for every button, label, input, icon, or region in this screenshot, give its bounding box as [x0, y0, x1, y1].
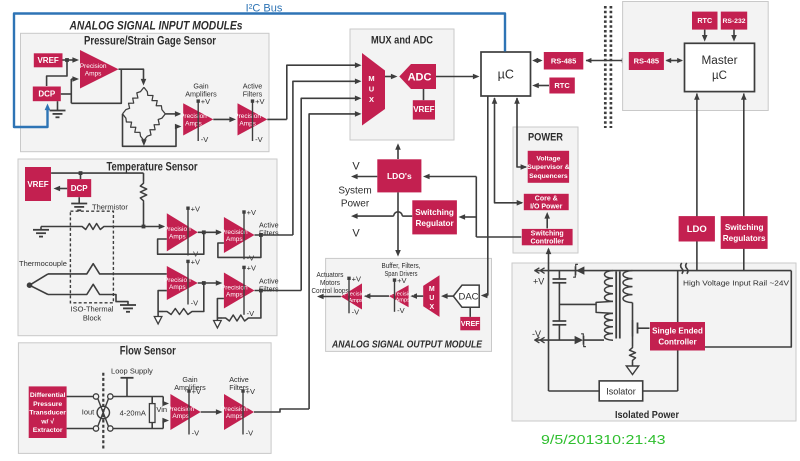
svg-text:DAC: DAC — [458, 292, 478, 303]
svg-text:-V: -V — [192, 429, 200, 438]
svg-text:Controller: Controller — [530, 239, 564, 246]
svg-text:Precision: Precision — [164, 277, 191, 284]
svg-text:RTC: RTC — [697, 16, 712, 25]
svg-text:+V: +V — [247, 264, 256, 273]
svg-text:+V: +V — [352, 274, 361, 283]
svg-text:Amps: Amps — [226, 292, 243, 299]
svg-text:-V: -V — [201, 135, 209, 144]
svg-text:M: M — [429, 286, 435, 293]
svg-text:POWER: POWER — [528, 132, 563, 144]
svg-text:Isolator: Isolator — [606, 387, 636, 397]
svg-text:-V: -V — [191, 299, 199, 308]
svg-text:Amps: Amps — [226, 236, 243, 243]
svg-text:Isolated Power: Isolated Power — [615, 409, 679, 421]
svg-text:µC: µC — [498, 68, 514, 82]
svg-text:Amps: Amps — [169, 284, 186, 291]
svg-text:Amps: Amps — [85, 70, 102, 77]
svg-text:Pressure/Strain Gage Sensor: Pressure/Strain Gage Sensor — [84, 36, 216, 48]
svg-text:+V: +V — [533, 277, 544, 287]
svg-text:-V: -V — [247, 309, 255, 318]
svg-text:Switching: Switching — [725, 223, 764, 232]
svg-text:VREF: VREF — [37, 56, 58, 65]
svg-text:Thermocouple: Thermocouple — [19, 259, 67, 268]
svg-text:9/5/201310:21:43: 9/5/201310:21:43 — [541, 432, 666, 447]
svg-text:High Voltage Input Rail ~24V: High Voltage Input Rail ~24V — [683, 279, 790, 288]
svg-text:Thermistor: Thermistor — [92, 203, 128, 212]
svg-text:LDO: LDO — [687, 224, 707, 235]
svg-text:Sequencers: Sequencers — [529, 173, 568, 180]
svg-text:RS-485: RS-485 — [551, 57, 576, 66]
svg-text:Precision: Precision — [167, 406, 194, 413]
svg-text:ANALOG SIGNAL OUTPUT MODULE: ANALOG SIGNAL OUTPUT MODULE — [331, 339, 483, 351]
svg-text:I/O Power: I/O Power — [530, 204, 563, 211]
svg-text:+V: +V — [247, 208, 256, 217]
svg-text:-V: -V — [397, 306, 405, 315]
svg-text:DCP: DCP — [38, 90, 56, 99]
svg-text:Amps: Amps — [169, 234, 186, 241]
svg-text:VREF: VREF — [413, 105, 434, 114]
svg-text:Vin: Vin — [156, 405, 167, 414]
svg-text:Controller: Controller — [658, 338, 696, 347]
svg-text:Master: Master — [702, 55, 738, 67]
svg-text:Precision: Precision — [164, 226, 191, 233]
svg-text:VREF: VREF — [461, 321, 480, 328]
svg-text:VREF: VREF — [27, 180, 48, 189]
svg-text:+V: +V — [255, 97, 264, 106]
svg-text:+V: +V — [192, 387, 201, 396]
svg-text:Regulator: Regulator — [415, 219, 454, 228]
svg-text:X: X — [369, 95, 374, 104]
svg-text:Pressure: Pressure — [33, 401, 62, 408]
svg-text:U: U — [369, 85, 374, 94]
svg-text:4-20mA: 4-20mA — [120, 409, 146, 418]
svg-text:ADC: ADC — [408, 72, 432, 84]
svg-text:M: M — [368, 74, 374, 83]
svg-text:RS-485: RS-485 — [634, 57, 659, 66]
svg-text:RTC: RTC — [554, 81, 570, 90]
svg-text:+V: +V — [191, 258, 200, 267]
svg-text:Amps: Amps — [349, 298, 364, 304]
svg-text:Differential: Differential — [30, 392, 66, 399]
svg-text:Precision: Precision — [344, 292, 367, 298]
svg-text:+V: +V — [397, 276, 406, 285]
svg-text:+V: +V — [191, 204, 200, 213]
svg-text:Amps: Amps — [239, 121, 256, 128]
svg-text:+V: +V — [246, 387, 255, 396]
svg-text:Regulators: Regulators — [723, 234, 766, 243]
svg-text:Flow Sensor: Flow Sensor — [120, 346, 176, 358]
svg-text:Precision: Precision — [221, 406, 248, 413]
svg-text:Single Ended: Single Ended — [652, 327, 703, 336]
svg-text:Temperature Sensor: Temperature Sensor — [107, 162, 198, 174]
svg-text:+V: +V — [201, 97, 210, 106]
svg-text:System: System — [338, 186, 371, 197]
svg-text:ANALOG SIGNAL INPUT MODULEs: ANALOG SIGNAL INPUT MODULEs — [69, 19, 243, 33]
svg-text:V: V — [352, 161, 360, 173]
svg-text:-V: -V — [246, 429, 254, 438]
svg-text:Loop Supply: Loop Supply — [111, 367, 153, 376]
svg-text:Amps: Amps — [396, 298, 411, 304]
svg-text:Precision: Precision — [80, 63, 107, 70]
svg-text:LDO's: LDO's — [387, 171, 412, 181]
svg-text:RS-232: RS-232 — [722, 18, 745, 25]
svg-text:MUX and ADC: MUX and ADC — [371, 35, 433, 47]
svg-text:Precision: Precision — [234, 113, 261, 120]
svg-text:Core &: Core & — [535, 195, 558, 202]
svg-text:w/ √: w/ √ — [40, 417, 54, 425]
svg-text:Amps: Amps — [226, 413, 243, 420]
svg-text:Iout: Iout — [82, 408, 95, 417]
svg-text:U: U — [429, 295, 434, 302]
svg-text:Power: Power — [341, 199, 370, 210]
svg-text:Switching: Switching — [531, 231, 564, 238]
svg-text:-V: -V — [352, 308, 360, 317]
svg-text:µC: µC — [712, 70, 727, 82]
svg-text:Voltage: Voltage — [536, 156, 560, 163]
svg-text:Extractor: Extractor — [33, 427, 63, 434]
svg-text:ISO-Thermal: ISO-Thermal — [71, 305, 114, 314]
svg-text:-V: -V — [532, 329, 541, 339]
svg-text:V: V — [352, 228, 360, 240]
svg-text:Switching: Switching — [415, 208, 454, 217]
svg-text:Amps: Amps — [185, 121, 202, 128]
svg-text:-V: -V — [255, 135, 263, 144]
svg-text:Supervisor &: Supervisor & — [527, 164, 569, 171]
svg-text:Block: Block — [83, 314, 102, 323]
svg-text:DCP: DCP — [71, 184, 89, 193]
svg-text:Amps: Amps — [172, 413, 189, 420]
svg-text:Buffer, Filters,: Buffer, Filters, — [382, 263, 421, 270]
svg-text:Transducer: Transducer — [29, 410, 66, 417]
svg-text:X: X — [429, 304, 434, 311]
svg-text:Precision: Precision — [180, 113, 207, 120]
